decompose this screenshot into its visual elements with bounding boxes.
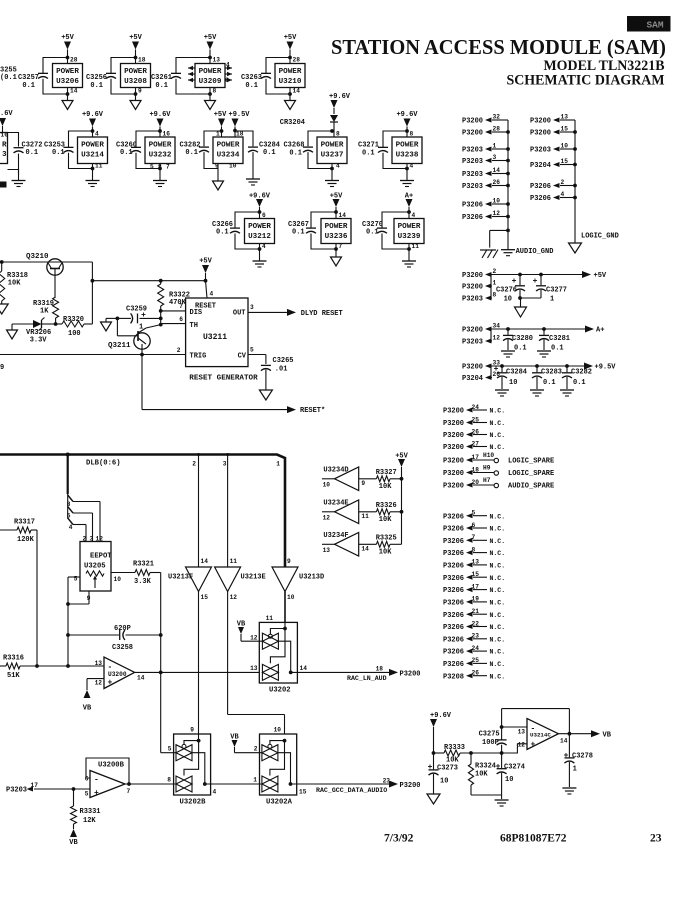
capacitor 0.1 bypass for U3212 [230, 210, 261, 251]
svg-text:P3206: P3206 [443, 538, 464, 546]
power net +5V arrow for U3210 [284, 34, 297, 64]
svg-text:N.C.: N.C. [490, 612, 506, 619]
svg-text:+5V: +5V [594, 272, 607, 280]
ground below U3208 [130, 94, 141, 110]
svg-text:14: 14 [293, 88, 301, 95]
connector pin P3206-6 N.C. [443, 522, 505, 534]
svg-text:100P: 100P [482, 739, 499, 747]
svg-text:C3265: C3265 [273, 357, 294, 365]
capacitor C3263 0.1 bypass for U3210 [241, 56, 292, 96]
svg-text:0.1: 0.1 [551, 345, 564, 353]
svg-text:U3200: U3200 [108, 671, 127, 678]
svg-text:N.C.: N.C. [490, 575, 506, 582]
svg-text:12: 12 [518, 742, 526, 749]
capacitor C3270 label [362, 221, 383, 237]
wire DIS pin 7 [161, 303, 186, 311]
svg-text:P3206: P3206 [462, 214, 483, 222]
capacitor C3257 0.1 bypass for U3206 [18, 56, 69, 96]
svg-text:0.1: 0.1 [155, 82, 168, 90]
node DIS/TH junctions [159, 309, 163, 327]
capacitor C3277 1 (polarized) [533, 275, 567, 304]
power net +9.6V arrow for U3232 [149, 111, 171, 137]
svg-text:9: 9 [287, 558, 291, 565]
wire +9.5V rail [491, 364, 585, 377]
svg-text:N.C.: N.C. [490, 420, 506, 427]
svg-text:13: 13 [323, 547, 331, 554]
svg-text:P3200: P3200 [462, 364, 483, 372]
power net +5V arrow for pull-ups [395, 453, 408, 545]
svg-text:18: 18 [376, 665, 384, 672]
svg-text:14: 14 [361, 545, 369, 552]
svg-text:27: 27 [472, 440, 480, 447]
svg-text:10K: 10K [379, 483, 392, 491]
svg-text:6: 6 [472, 522, 476, 529]
svg-text:10: 10 [274, 727, 282, 734]
svg-text:R3333: R3333 [444, 744, 465, 752]
svg-text:AUDIO_SPARE: AUDIO_SPARE [508, 483, 554, 491]
svg-text:+5V: +5V [284, 34, 297, 42]
svg-text:Q3210: Q3210 [26, 253, 49, 261]
svg-text:0.1: 0.1 [90, 82, 103, 90]
svg-text:U3236: U3236 [325, 233, 348, 241]
resistor R3325 10K [359, 535, 402, 557]
power IC U3232 [145, 131, 175, 169]
wire A+ rail [491, 327, 586, 341]
power net +5V arrow for U3209 [204, 34, 217, 64]
svg-text:23: 23 [650, 833, 662, 845]
svg-text:C3277: C3277 [546, 287, 567, 295]
svg-text:C3278: C3278 [572, 753, 593, 761]
svg-text:9: 9 [0, 364, 4, 372]
resistor R3331 12K [71, 789, 101, 829]
svg-text:7: 7 [166, 164, 170, 171]
capacitor C3271 label [358, 142, 379, 158]
svg-text:R3324: R3324 [475, 763, 496, 771]
capacitor 0.1 bypass for U3236 [306, 210, 338, 251]
power net VB arrow at U3202 pin 12 [237, 621, 263, 642]
capacitor 0.1 bypass for U3239 [377, 210, 411, 251]
capacitor C3278 1 (polarized) [564, 734, 593, 787]
svg-text:10: 10 [493, 198, 501, 205]
ground below R3318 [0, 304, 8, 314]
connector pin P3206-25 N.C. [443, 657, 505, 669]
svg-text:0.1: 0.1 [52, 149, 65, 157]
svg-text:U3237: U3237 [321, 152, 344, 160]
svg-text:5: 5 [250, 347, 254, 354]
connector pin P3206-23 N.C. [443, 633, 505, 645]
svg-text:9: 9 [190, 727, 194, 734]
svg-text:U3213D: U3213D [299, 574, 324, 582]
svg-text:1: 1 [276, 461, 280, 468]
power IC U3236 [321, 212, 351, 250]
svg-text:2: 2 [177, 347, 181, 354]
svg-text:5: 5 [150, 164, 154, 171]
svg-text:H7: H7 [483, 477, 491, 484]
svg-text:0.1: 0.1 [573, 379, 586, 387]
svg-text:4: 4 [69, 524, 73, 531]
svg-text:N.C.: N.C. [490, 661, 506, 668]
svg-text:POWER: POWER [81, 142, 104, 150]
svg-text:C3284: C3284 [506, 369, 527, 377]
capacitor C3281 0.1 [539, 329, 570, 353]
svg-text:U3213F: U3213F [168, 574, 193, 582]
power net VB arrow below R3331 [69, 829, 78, 847]
op-amp U3200 [95, 657, 145, 689]
svg-text:N.C.: N.C. [490, 600, 506, 607]
capacitor C3276 10 (polarized) [496, 275, 525, 304]
svg-text:POWER: POWER [149, 142, 172, 150]
svg-text:P3203: P3203 [462, 147, 483, 155]
svg-text:P3203: P3203 [462, 171, 483, 179]
svg-text:H10: H10 [483, 452, 494, 459]
svg-text:17: 17 [472, 583, 480, 590]
svg-text:1: 1 [550, 296, 554, 304]
ground below C3278 [562, 788, 576, 794]
connector pin P3200-2 (+5V) [462, 268, 497, 280]
svg-text:8: 8 [472, 546, 476, 553]
svg-text:CR3204: CR3204 [280, 119, 305, 127]
svg-text:R3331: R3331 [80, 808, 101, 816]
svg-text:RAC_GCC_DATA_AUDIO: RAC_GCC_DATA_AUDIO [316, 787, 387, 794]
capacitor C3265 .01 [261, 357, 294, 390]
svg-text:-: - [94, 776, 99, 785]
svg-text:P3206: P3206 [443, 649, 464, 657]
bus rip tap bit 8 [67, 495, 100, 542]
svg-text:U3211: U3211 [203, 333, 227, 342]
ground below U3237 [325, 169, 339, 187]
svg-text:P3204: P3204 [530, 162, 551, 170]
svg-text:AUDIO_GND: AUDIO_GND [516, 248, 554, 256]
title STATION ACCESS MODULE (SAM) [331, 35, 666, 59]
svg-text:N.C.: N.C. [490, 513, 506, 520]
svg-text:10: 10 [323, 481, 331, 488]
power net +9.6V arrow for U3212 [249, 193, 271, 219]
svg-text:LOGIC_SPARE: LOGIC_SPARE [508, 470, 554, 478]
connector pin P3206-7 N.C. [443, 534, 505, 546]
connector pin P3200-25 N.C. [443, 416, 505, 428]
svg-text:6: 6 [262, 212, 266, 219]
footer part number 68P81087E72 [500, 833, 567, 845]
svg-text:28: 28 [293, 57, 301, 64]
svg-text:P3204: P3204 [462, 375, 483, 383]
label bus tap 1 to U3213D [276, 461, 280, 468]
svg-text:0.1: 0.1 [120, 149, 133, 157]
connector pin P3206-19 N.C. [443, 596, 505, 608]
svg-text:1: 1 [216, 131, 220, 138]
connector pin P3200-32 (audio gnd) [462, 114, 508, 126]
svg-text:10K: 10K [8, 280, 21, 288]
power net +9.6V arrow for U3238 [396, 111, 418, 137]
svg-text:28: 28 [70, 57, 78, 64]
wire EEPOT left feedback node [66, 577, 70, 668]
svg-text:0.1: 0.1 [26, 149, 39, 157]
svg-text:TH: TH [190, 322, 198, 330]
svg-text:15: 15 [561, 158, 569, 165]
svg-text:10K: 10K [475, 771, 488, 779]
svg-text:U3206: U3206 [56, 78, 79, 86]
svg-text:6: 6 [85, 776, 89, 783]
connector pin P3206-21 N.C. [443, 608, 505, 620]
svg-text:R: R [2, 142, 7, 150]
svg-text:P3206: P3206 [443, 624, 464, 632]
svg-text:C3276: C3276 [496, 287, 517, 295]
svg-text:P3200: P3200 [462, 327, 483, 335]
svg-text:P3200: P3200 [462, 130, 483, 138]
svg-text:VB: VB [603, 732, 612, 740]
ground below C3281 [537, 351, 551, 357]
svg-text:25: 25 [472, 416, 480, 423]
svg-text:P3206: P3206 [462, 202, 483, 210]
svg-text:+9.5V: +9.5V [229, 111, 251, 119]
connector pin P3206-12 (audio gnd) [462, 210, 510, 222]
resistor R3321 3.3K [133, 561, 161, 636]
ground below C3272 [12, 169, 26, 187]
connector pin P3203-1 (audio gnd) [462, 143, 510, 155]
svg-text:U3238: U3238 [396, 152, 419, 160]
wire bus tap 2 to U3213F [192, 453, 200, 567]
svg-text:18: 18 [472, 466, 480, 473]
subtitle MODEL TLN3221B [544, 58, 665, 74]
svg-text:C3259: C3259 [126, 306, 147, 314]
wire TRIG rail (from page edge, labeled 9) [0, 347, 186, 372]
ground below VR3206 [7, 330, 18, 339]
svg-text:10: 10 [509, 379, 517, 387]
svg-text:+5V: +5V [199, 258, 212, 266]
svg-text:5: 5 [472, 510, 476, 517]
svg-text:14: 14 [560, 738, 568, 745]
zener diode VR3206 3.3V [12, 318, 56, 345]
svg-text:+5V: +5V [204, 34, 217, 42]
svg-text:11: 11 [230, 558, 238, 565]
svg-text:+5V: +5V [61, 34, 74, 42]
svg-text:P3206: P3206 [443, 550, 464, 558]
svg-text:10: 10 [440, 778, 448, 786]
svg-text:10: 10 [504, 296, 512, 304]
svg-text:(0.1: (0.1 [0, 74, 17, 82]
buffer U3213F (vertical) [168, 558, 212, 601]
wire U3200B feedback loop [86, 758, 131, 786]
net label A+ arrow [585, 326, 604, 335]
svg-text:2: 2 [561, 179, 565, 186]
svg-text:C3271: C3271 [358, 142, 379, 150]
svg-text:CV: CV [238, 353, 247, 361]
svg-text:7/3/92: 7/3/92 [384, 833, 414, 845]
wire minus input U3214C [502, 726, 527, 728]
partial power IC at left edge (pin 16) [0, 110, 24, 174]
label RESET GENERATOR [189, 375, 258, 383]
power IC U3212 [245, 212, 275, 250]
svg-text:21: 21 [472, 608, 480, 615]
ground below C3280 [501, 351, 515, 357]
svg-text:N.C.: N.C. [490, 550, 506, 557]
SAM page tag (black box) [628, 17, 671, 32]
svg-text:N.C.: N.C. [490, 538, 506, 545]
transistor Q3210 [26, 253, 63, 275]
svg-text:POWER: POWER [199, 68, 222, 76]
resistor R3324 10K [468, 753, 496, 795]
svg-text:13: 13 [472, 559, 480, 566]
svg-text:26: 26 [472, 670, 480, 677]
svg-text:+9.5V: +9.5V [595, 364, 617, 372]
svg-text:14: 14 [339, 212, 347, 219]
svg-text:DIS: DIS [190, 309, 203, 317]
ground below U3239 [402, 249, 416, 267]
svg-text:LOGIC_SPARE: LOGIC_SPARE [508, 458, 554, 466]
svg-text:C3275: C3275 [479, 731, 500, 739]
svg-text:8: 8 [158, 164, 162, 171]
svg-text:U3214: U3214 [81, 152, 104, 160]
svg-text:7: 7 [339, 243, 343, 250]
bus DLB(0:6) [0, 455, 285, 567]
wire U3213F output to U3202B [198, 592, 200, 741]
svg-text:P3206: P3206 [443, 563, 464, 571]
connector pin P3206-15 N.C. [443, 571, 505, 583]
resistor R3317 120K [0, 519, 37, 667]
connector pin P3200-27 N.C. [443, 440, 505, 452]
svg-text:STATION ACCESS MODULE (SAM): STATION ACCESS MODULE (SAM) [331, 35, 666, 59]
power net +5V arrow for U3236 [330, 193, 343, 219]
ground below U3232 [153, 169, 167, 187]
svg-text:5: 5 [168, 746, 172, 753]
svg-text:H9: H9 [483, 465, 491, 472]
svg-text:0.1: 0.1 [216, 229, 229, 237]
svg-text:POWER: POWER [248, 223, 271, 231]
capacitor C3280 0.1 [503, 329, 533, 353]
svg-text:4: 4 [561, 191, 565, 198]
svg-text:POWER: POWER [124, 68, 147, 76]
capacitor C3273 10 (polarized) [428, 753, 458, 794]
svg-text:DLYD RESET: DLYD RESET [301, 310, 343, 318]
svg-text:17: 17 [472, 454, 480, 461]
svg-text:N.C.: N.C. [490, 587, 506, 594]
wire U3202A output RAC_GCC_DATA_AUDIO to P3200-23 [291, 777, 421, 794]
svg-text:8: 8 [167, 777, 171, 784]
svg-text:26: 26 [493, 179, 501, 186]
svg-text:8: 8 [410, 131, 414, 138]
svg-text:N.C.: N.C. [490, 432, 506, 439]
svg-text:POWER: POWER [396, 142, 419, 150]
wire U3202B output to U3202A [205, 783, 262, 785]
capacitor C3259 1 (polarized) [116, 306, 161, 332]
svg-text:13: 13 [518, 729, 526, 736]
svg-text:3: 3 [2, 151, 7, 159]
ground below U3210 [285, 94, 296, 110]
svg-text:R3317: R3317 [14, 519, 35, 527]
svg-text:P3200: P3200 [462, 118, 483, 126]
connector pin P3206-22 N.C. [443, 620, 505, 632]
wire +5V rail [491, 273, 583, 298]
ground below U3236 [331, 249, 342, 266]
svg-text:20: 20 [472, 479, 480, 486]
svg-text:+9.6V: +9.6V [396, 111, 418, 119]
svg-text:1: 1 [493, 143, 497, 150]
capacitor C3282 0.1 bypass for U3234 [179, 129, 223, 168]
svg-text:13: 13 [213, 57, 221, 64]
svg-text:C3282: C3282 [571, 369, 592, 377]
svg-text:P3203: P3203 [462, 339, 483, 347]
connector pin P3206-10 (audio gnd) [462, 198, 510, 210]
svg-text:2: 2 [83, 536, 87, 543]
capacitor C3256 0.1 bypass for U3208 [86, 56, 137, 96]
svg-text:EEPOT: EEPOT [90, 553, 112, 561]
bus rip tap bit 5 [67, 507, 93, 542]
svg-text:SCHEMATIC DIAGRAM: SCHEMATIC DIAGRAM [507, 73, 665, 89]
connector pin P3200-20 jumper H7 AUDIO_SPARE [443, 477, 554, 490]
power net +9.6V arrow for U3214C [430, 712, 452, 755]
svg-text:4: 4 [210, 291, 214, 298]
svg-text:VB: VB [69, 839, 78, 847]
svg-text:8: 8 [336, 131, 340, 138]
svg-text:TRIG: TRIG [190, 353, 207, 361]
ground below C3282a [560, 390, 574, 396]
bus rip tap bit 4 [68, 518, 86, 542]
footer page 23 [650, 833, 662, 845]
node junction R3319/VR3206/R3320 [54, 322, 58, 326]
svg-text:C3258: C3258 [112, 644, 133, 652]
svg-text:RESET*: RESET* [300, 407, 325, 415]
connector pin P3208-26 N.C. [443, 670, 505, 682]
svg-text:RAC_LN_AUD: RAC_LN_AUD [347, 675, 387, 682]
svg-text:4: 4 [336, 163, 340, 170]
capacitor C3283 0.1 [532, 366, 562, 389]
connector pin P3204-26 (+9.5V) [462, 371, 500, 383]
svg-text:P3203: P3203 [6, 787, 27, 795]
ground below U3212 [253, 249, 267, 267]
connector pin P3200-24 N.C. [443, 404, 505, 416]
svg-text:120K: 120K [17, 536, 35, 544]
svg-text:10K: 10K [379, 516, 392, 524]
svg-text:C3268: C3268 [283, 142, 304, 150]
power net VB arrow at U3202A pin 2 [230, 734, 262, 753]
svg-text:3: 3 [223, 461, 227, 468]
wire OUT pin 3 to DLYD RESET [248, 304, 343, 318]
ground below U3206 [62, 94, 73, 110]
svg-text:N.C.: N.C. [490, 624, 506, 631]
connector pin P3203-14 (audio gnd) [462, 167, 510, 179]
capacitor C3275 100P [479, 709, 507, 753]
svg-text:N.C.: N.C. [490, 526, 506, 533]
power net VB arrow at U3200 [83, 690, 92, 713]
svg-text:12: 12 [323, 514, 331, 521]
power net +5V arrow for U3234 [214, 111, 227, 137]
svg-text:24: 24 [472, 404, 480, 411]
power net +9.5V arrow for U3234 [229, 111, 251, 137]
connector pin P3206-2 (logic gnd) [530, 179, 577, 191]
svg-text:0.1: 0.1 [514, 345, 527, 353]
capacitor C3258 620P [68, 625, 163, 672]
svg-text:P3200: P3200 [530, 118, 551, 126]
svg-text:22: 22 [472, 620, 480, 627]
svg-text:470K: 470K [169, 299, 187, 307]
svg-text:16: 16 [163, 131, 171, 138]
buffer U3234E [322, 500, 369, 524]
svg-text:N.C.: N.C. [490, 673, 506, 680]
capacitor C3253 label [44, 142, 65, 158]
svg-text:U3210: U3210 [279, 78, 302, 86]
connector pin P3203-3 (audio gnd) [462, 154, 510, 166]
svg-text:12: 12 [96, 536, 104, 543]
svg-text:0.1: 0.1 [289, 150, 302, 158]
power IC U3208 [121, 57, 151, 95]
svg-text:P3206: P3206 [443, 526, 464, 534]
wire P3203-17 input to U3200B [6, 782, 90, 795]
svg-text:10: 10 [561, 143, 569, 150]
svg-text:15: 15 [299, 789, 307, 796]
ground LOGIC_GND (open) [569, 243, 582, 253]
wire logic ground bus [575, 120, 619, 243]
wire caps to ground (+5V group) [518, 296, 541, 307]
svg-text:.6V: .6V [0, 110, 13, 118]
